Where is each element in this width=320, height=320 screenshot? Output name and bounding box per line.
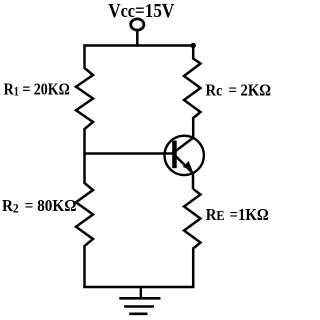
svg-text:RE =1KΩ: RE =1KΩ: [206, 206, 269, 224]
svg-text:R1 = 20KΩ: R1 = 20KΩ: [4, 81, 70, 100]
svg-text:Vcc=15V: Vcc=15V: [108, 0, 175, 22]
svg-text:Rc = 2KΩ: Rc = 2KΩ: [206, 81, 272, 99]
svg-text:R2 = 80KΩ: R2 = 80KΩ: [2, 198, 77, 216]
